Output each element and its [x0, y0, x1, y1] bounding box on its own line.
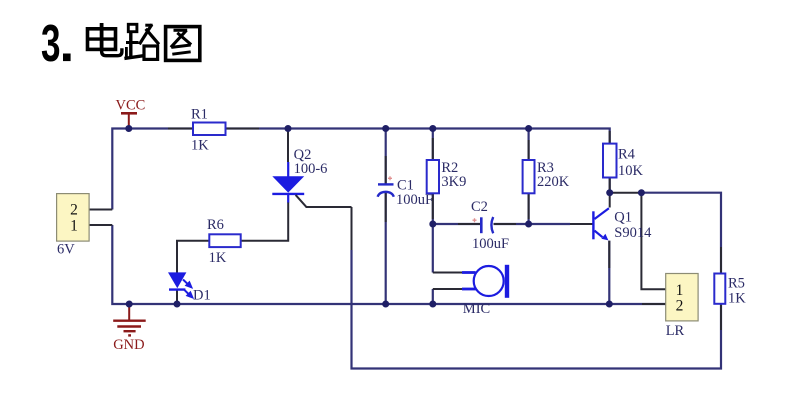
svg-text:2: 2 [70, 201, 78, 218]
svg-text:100uF: 100uF [396, 192, 433, 208]
svg-text:R6: R6 [207, 217, 224, 233]
svg-text:1K: 1K [191, 138, 209, 154]
svg-text:C2: C2 [471, 199, 488, 215]
svg-text:6V: 6V [57, 242, 75, 258]
svg-text:VCC: VCC [116, 98, 146, 114]
svg-text:S9014: S9014 [614, 225, 652, 241]
svg-text:LR: LR [666, 323, 685, 339]
svg-text:100uF: 100uF [472, 236, 509, 252]
svg-text:220K: 220K [537, 174, 570, 190]
svg-text:MIC: MIC [463, 301, 490, 317]
svg-text:D1: D1 [193, 288, 211, 304]
svg-text:1K: 1K [728, 291, 746, 307]
svg-text:3: 3 [41, 15, 61, 73]
svg-text:10K: 10K [618, 163, 644, 179]
svg-text:1: 1 [676, 282, 684, 299]
svg-text:2: 2 [676, 298, 684, 315]
svg-text:R5: R5 [728, 276, 745, 292]
svg-text:3K9: 3K9 [441, 174, 466, 190]
svg-text:1K: 1K [209, 250, 227, 266]
svg-text:R4: R4 [618, 147, 636, 163]
svg-text:100-6: 100-6 [294, 161, 328, 177]
svg-text:1: 1 [70, 218, 78, 235]
svg-text:GND: GND [113, 337, 144, 353]
svg-text:R1: R1 [191, 107, 208, 123]
svg-text:Q1: Q1 [614, 210, 632, 226]
